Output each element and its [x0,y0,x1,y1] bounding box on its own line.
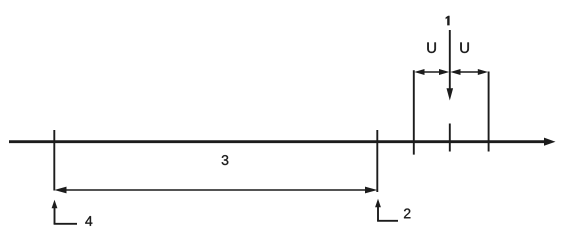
dimension arrow U right [450,69,488,75]
tick mark node 2 [376,130,378,192]
time axis [9,138,556,146]
pulse centre line upper with down arrow (node 1) [447,30,454,101]
dimension arrow U left [414,69,449,75]
label 2 [404,209,410,219]
label U left [427,42,436,52]
tick mark node 4 [53,130,55,191]
pulse left edge line [413,70,415,154]
label 4 [85,216,92,226]
reference marker 2 [375,199,398,221]
reference marker 4 [52,200,77,224]
label 3 [222,155,229,165]
label 1 [446,16,450,26]
label U right [460,42,469,52]
pulse centre line lower segment [449,124,451,152]
pulse right edge line [488,72,490,152]
dimension arrow 3 [54,187,377,194]
